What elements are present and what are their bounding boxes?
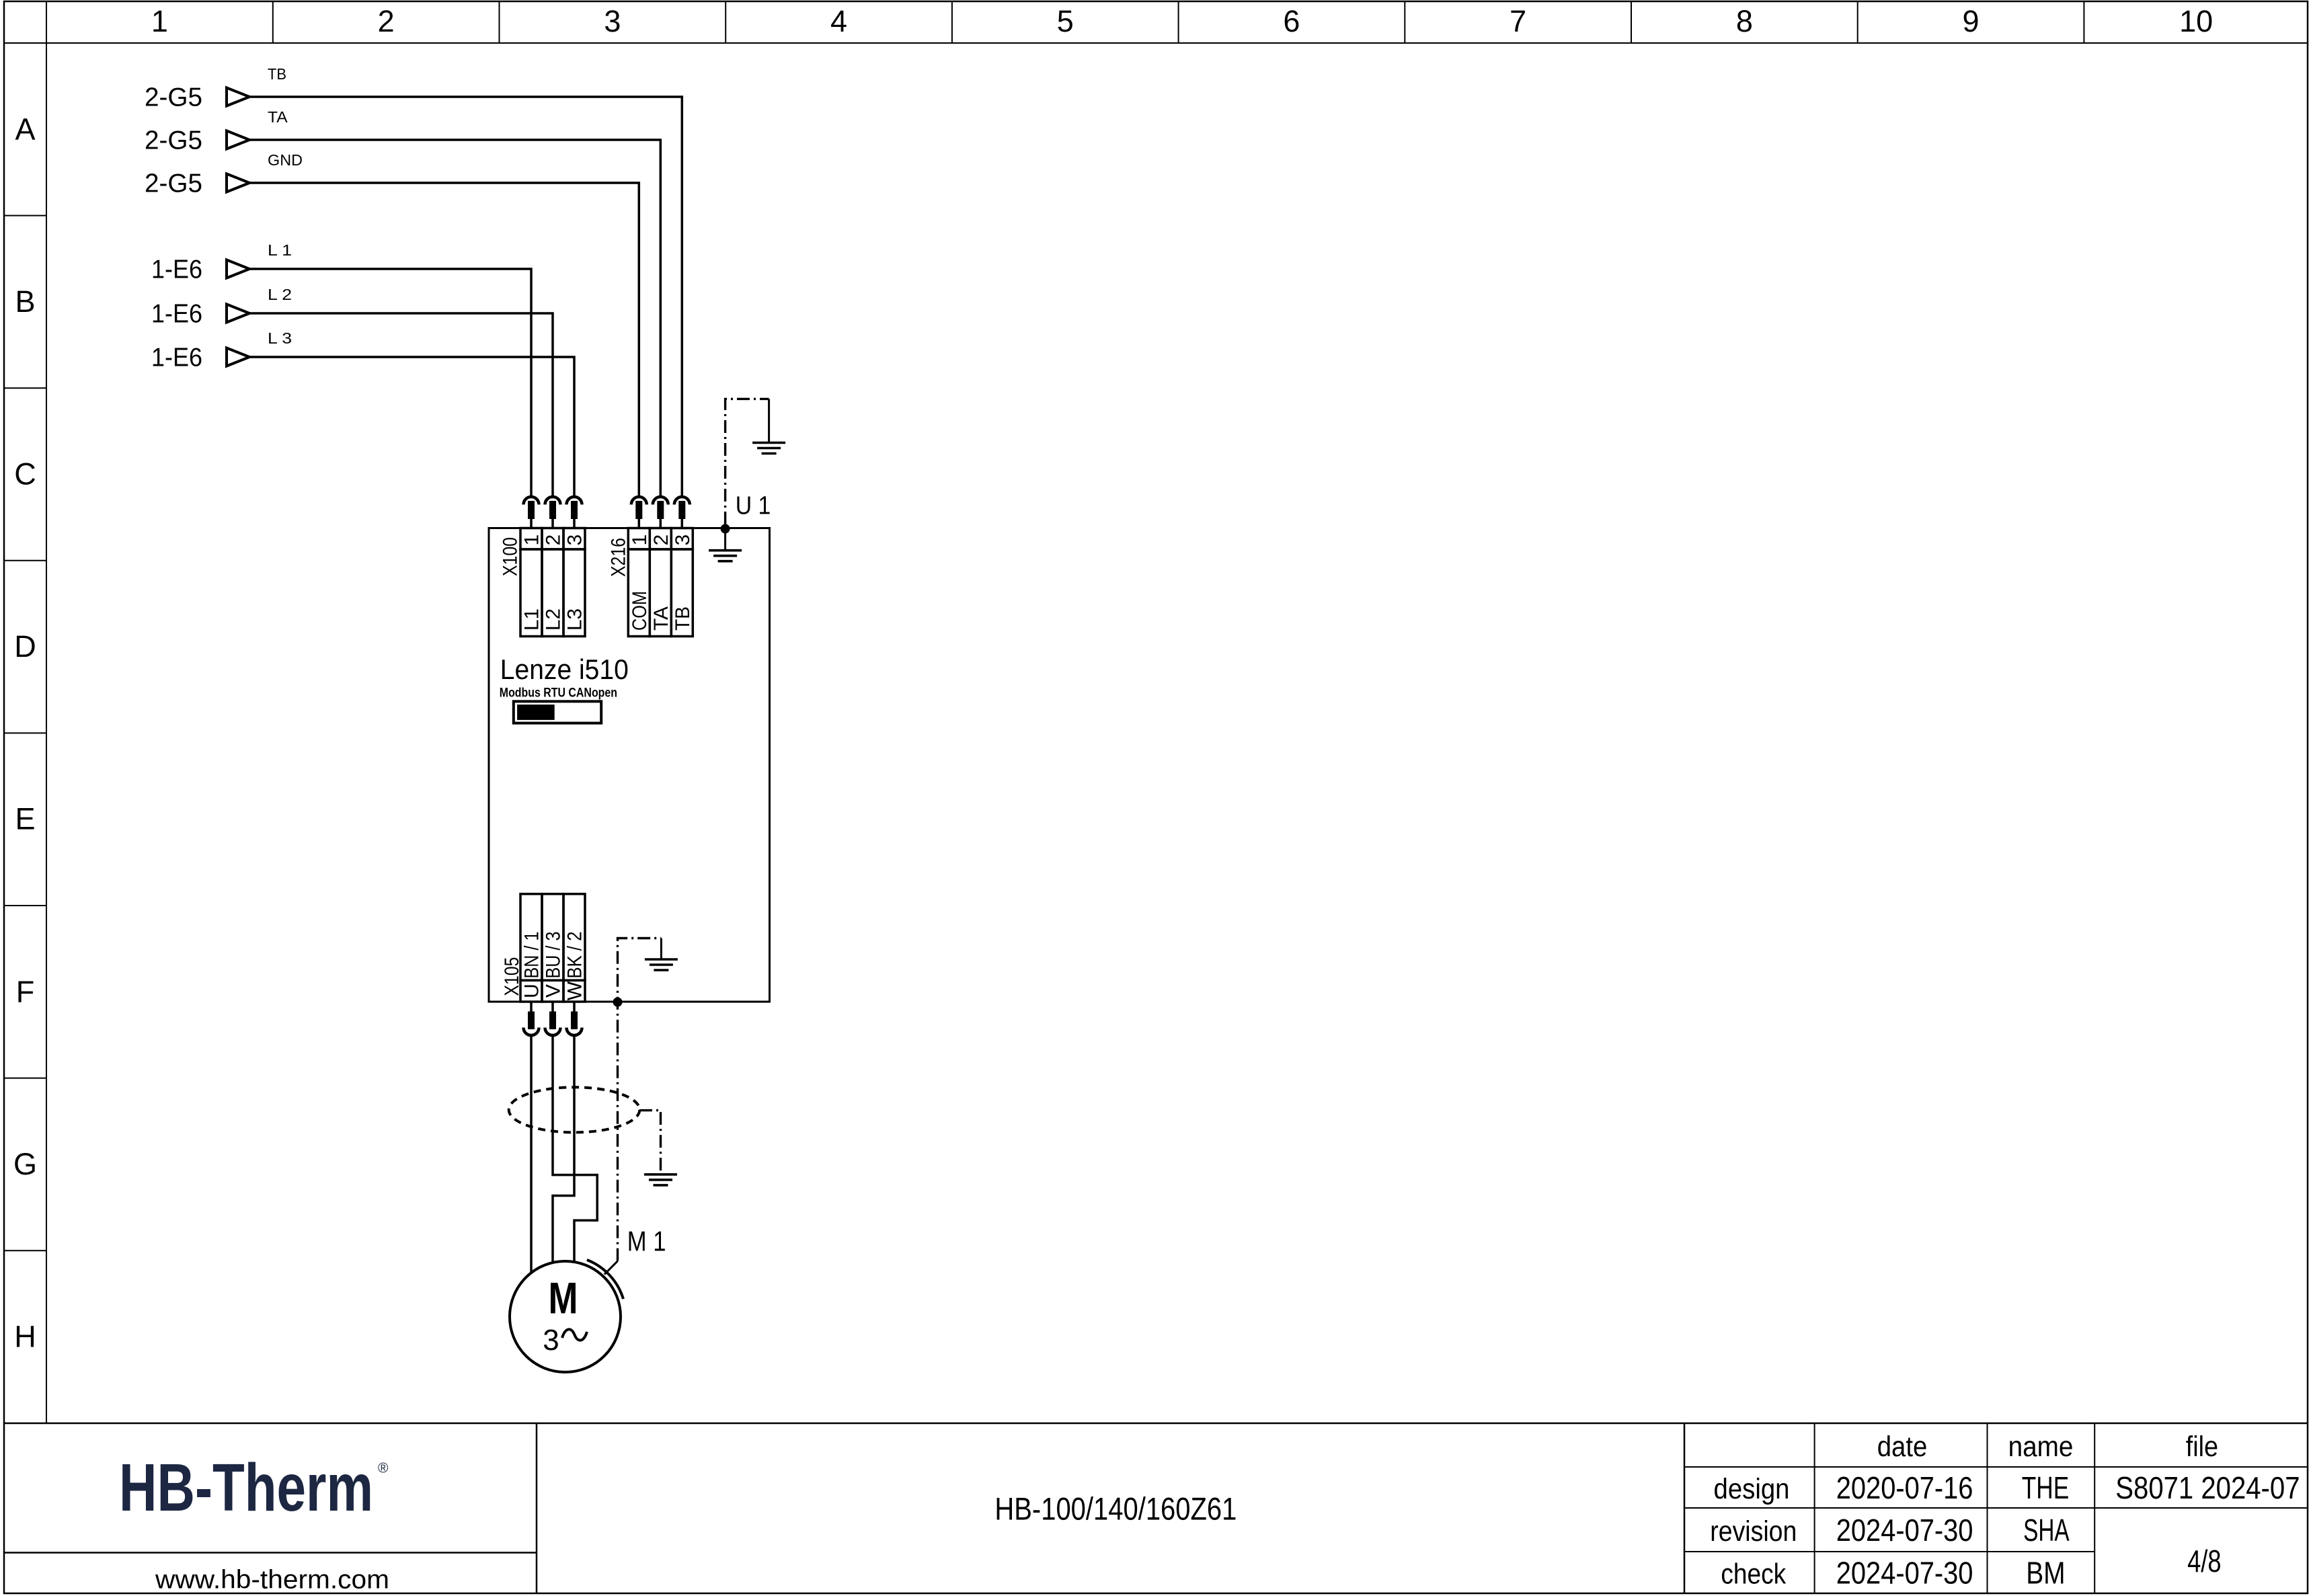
- svg-text:COM: COM: [629, 591, 651, 631]
- svg-text:4: 4: [830, 4, 847, 38]
- source arrow 2-G5 signal TA: [227, 131, 249, 149]
- ground E3: [660, 939, 662, 960]
- motor PE arc: [587, 1260, 623, 1299]
- wire L 3: [249, 357, 574, 495]
- svg-text:1: 1: [151, 4, 168, 38]
- svg-text:TB: TB: [672, 606, 694, 631]
- header row separator: [4, 42, 2308, 44]
- svg-text:10: 10: [2179, 4, 2213, 38]
- svg-text:BM: BM: [2026, 1556, 2065, 1591]
- svg-text:2024-07-30: 2024-07-30: [1836, 1556, 1973, 1591]
- svg-text:X105: X105: [501, 957, 523, 996]
- svg-text:TA: TA: [650, 606, 672, 631]
- node PE junction dot on box bottom: [613, 998, 623, 1007]
- svg-text:9: 9: [1963, 4, 1980, 38]
- svg-text:2: 2: [650, 534, 672, 546]
- svg-text:revision: revision: [1710, 1515, 1797, 1548]
- svg-text:www.hb-therm.com: www.hb-therm.com: [155, 1566, 389, 1595]
- svg-text:F: F: [16, 974, 35, 1008]
- PE diagonal to arc: [604, 1261, 618, 1275]
- svg-text:E: E: [15, 802, 35, 836]
- plug connector X216.2: [653, 497, 668, 505]
- svg-text:G: G: [13, 1147, 37, 1181]
- svg-text:D: D: [14, 629, 36, 664]
- source arrow 1-E6 signal L 1: [227, 260, 249, 278]
- plug connector X216.1: [631, 497, 647, 505]
- motor M1 circle: [510, 1261, 621, 1372]
- svg-text:3: 3: [564, 534, 586, 546]
- svg-text:6: 6: [1283, 4, 1300, 38]
- terminal strip X105: [520, 894, 542, 981]
- source arrow 2-G5 signal TB: [227, 88, 249, 106]
- svg-text:Lenze i510: Lenze i510: [500, 653, 629, 685]
- svg-text:BU / 3: BU / 3: [543, 932, 565, 979]
- ground E4 shield: [644, 1173, 677, 1176]
- plug connector X100.2: [545, 497, 561, 505]
- svg-text:3: 3: [604, 4, 621, 38]
- svg-text:THE: THE: [2022, 1470, 2070, 1505]
- svg-text:C: C: [14, 457, 36, 491]
- svg-text:TA: TA: [268, 108, 288, 126]
- letter column separator: [46, 1, 47, 1423]
- svg-text:2024-07-30: 2024-07-30: [1836, 1513, 1973, 1548]
- svg-text:H: H: [14, 1320, 36, 1354]
- node U1 PE junction dot: [721, 524, 730, 534]
- terminal strip X100: [520, 528, 542, 550]
- svg-text:TB: TB: [268, 65, 286, 83]
- svg-text:Modbus RTU CANopen: Modbus RTU CANopen: [500, 686, 617, 701]
- svg-text:4/8: 4/8: [2187, 1544, 2221, 1579]
- svg-text:L 3: L 3: [268, 329, 292, 347]
- svg-text:1: 1: [629, 534, 651, 546]
- frequency inverter U1 Lenze i510 box: [489, 528, 770, 1002]
- wire W to motor (jogs left): [553, 1037, 574, 1263]
- svg-text:L2: L2: [543, 608, 565, 631]
- svg-text:HB-100/140/160Z61: HB-100/140/160Z61: [994, 1491, 1237, 1527]
- dash-dot PE link from U1 dot: [726, 399, 769, 524]
- source arrow 1-E6 signal L 2: [227, 305, 249, 323]
- dash-dot PE line M1: [618, 939, 662, 1261]
- svg-text:M 1: M 1: [627, 1226, 666, 1257]
- svg-text:X100: X100: [500, 537, 522, 576]
- svg-text:design: design: [1714, 1473, 1790, 1505]
- wire L 1: [249, 269, 531, 495]
- svg-text:1-E6: 1-E6: [151, 255, 202, 284]
- wire GND: [249, 183, 639, 495]
- svg-text:U: U: [521, 984, 543, 998]
- wire TB: [249, 97, 682, 495]
- dip switch slider: [514, 701, 601, 723]
- dash-dot shield to ground: [639, 1111, 661, 1173]
- ground E1 top right: [768, 399, 770, 442]
- wire L 2: [249, 313, 553, 495]
- svg-text:W: W: [564, 981, 586, 1000]
- title block frame: [4, 1423, 2308, 1425]
- svg-text:3: 3: [672, 534, 694, 546]
- svg-text:3: 3: [543, 1324, 559, 1357]
- plug connector X105.V: [551, 1002, 554, 1012]
- svg-text:®: ®: [378, 1461, 389, 1476]
- svg-text:L 1: L 1: [268, 241, 292, 259]
- plug connector X100.3: [567, 497, 582, 505]
- source arrow 1-E6 signal L 3: [227, 348, 249, 366]
- wire U to motor: [530, 1037, 533, 1273]
- svg-text:L 2: L 2: [268, 286, 292, 303]
- svg-text:2-G5: 2-G5: [145, 169, 202, 198]
- svg-text:BK / 2: BK / 2: [564, 932, 586, 979]
- svg-text:GND: GND: [268, 151, 303, 169]
- svg-text:X216: X216: [608, 538, 630, 577]
- svg-text:HB-Therm: HB-Therm: [119, 1450, 373, 1525]
- svg-text:1: 1: [521, 534, 543, 546]
- svg-text:A: A: [15, 112, 35, 146]
- svg-text:name: name: [2008, 1431, 2074, 1463]
- wire TA: [249, 140, 660, 495]
- svg-text:V: V: [543, 984, 565, 998]
- svg-text:file: file: [2186, 1431, 2218, 1463]
- svg-text:check: check: [1721, 1558, 1786, 1591]
- svg-text:BN / 1: BN / 1: [521, 932, 543, 979]
- motor sine symbol: [562, 1329, 587, 1340]
- svg-text:2-G5: 2-G5: [145, 126, 202, 155]
- svg-text:S8071 2024-07: S8071 2024-07: [2115, 1470, 2300, 1505]
- svg-text:2-G5: 2-G5: [145, 83, 202, 112]
- svg-text:8: 8: [1736, 4, 1753, 38]
- svg-text:date: date: [1877, 1431, 1928, 1463]
- terminal strip X216: [628, 528, 650, 550]
- ground under U1 dot: [724, 529, 726, 551]
- svg-text:B: B: [15, 284, 35, 319]
- source arrow 2-G5 signal GND: [227, 174, 249, 192]
- svg-text:SHA: SHA: [2023, 1513, 2070, 1548]
- svg-text:2020-07-16: 2020-07-16: [1836, 1470, 1973, 1505]
- svg-text:M: M: [549, 1273, 578, 1322]
- svg-text:1-E6: 1-E6: [151, 300, 202, 329]
- svg-text:5: 5: [1057, 4, 1074, 38]
- plug connector X105.W: [573, 1002, 576, 1012]
- wire V to motor (jogs right): [553, 1037, 597, 1262]
- column ticks: [272, 1, 274, 43]
- svg-text:L1: L1: [521, 608, 543, 631]
- plug connector X216.3: [674, 497, 690, 505]
- row ticks: [4, 215, 46, 216]
- plug connector X105.U: [530, 1002, 533, 1012]
- svg-text:U 1: U 1: [736, 492, 771, 520]
- svg-text:7: 7: [1510, 4, 1526, 38]
- svg-text:L3: L3: [564, 608, 586, 631]
- cable shield ellipse: [509, 1087, 640, 1132]
- svg-text:2: 2: [543, 534, 565, 546]
- plug connector X100.1: [524, 497, 539, 505]
- svg-text:2: 2: [378, 4, 395, 38]
- svg-text:1-E6: 1-E6: [151, 344, 202, 372]
